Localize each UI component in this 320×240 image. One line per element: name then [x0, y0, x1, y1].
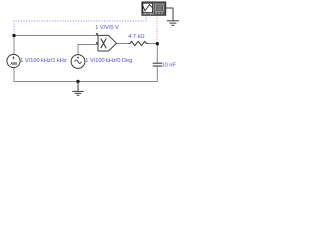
wire: node A to multiplier x input: [14, 35, 98, 37]
wire: multiplier output to resistor: [117, 43, 129, 45]
wire: V2 top to multiplier y input: [78, 45, 98, 55]
svg-text:1 V/V/0 V: 1 V/V/0 V: [95, 25, 119, 31]
label C1 value: 10 nF: [162, 63, 177, 69]
svg-text:10 nF: 10 nF: [162, 63, 177, 69]
svg-text:1 V/100 kHz/0 Deg: 1 V/100 kHz/0 Deg: [85, 58, 132, 64]
oscilloscope XSC1 body: [142, 2, 166, 15]
label V2 value: 1 V/100 kHz/0 Deg: [85, 58, 132, 64]
ground GND2 (top right): [167, 21, 179, 26]
wire: node A down to V1 top: [13, 36, 15, 55]
svg-text:1 V/100 kHz/1 kHz: 1 V/100 kHz/1 kHz: [20, 58, 67, 64]
oscilloscope XSC1 right display panel: [154, 3, 165, 15]
wire: resistor to node C: [148, 43, 157, 45]
label V1 value: 1 V/100 kHz/1 kHz: [20, 58, 67, 64]
wire: scope ground terminal: [166, 8, 173, 21]
AM source V1 text: [10, 61, 17, 66]
resistor R1: [129, 41, 149, 45]
AM source V1: [7, 54, 20, 67]
capacitor C1: [153, 63, 162, 66]
wire: scope channel A dashed (blue): [14, 15, 146, 35]
label R1 value: 4.7 kohm: [128, 34, 144, 40]
label A1 value: 1 V/V/0 V: [95, 25, 119, 31]
node C junction (output): [156, 42, 159, 45]
wire: node C down to capacitor C1: [156, 44, 158, 64]
oscilloscope XSC1 buttons: [145, 13, 163, 15]
wire: scope channel B dashed (red): [156, 15, 158, 43]
oscilloscope XSC1 screen with waveform: [143, 3, 153, 12]
multiplier A1 input pin markers: [96, 33, 98, 44]
ground GND1 (bottom): [72, 82, 84, 96]
multiplier A1: [98, 35, 117, 51]
wire: capacitor C1 to ground rail: [156, 66, 158, 82]
node A junction: [12, 34, 15, 37]
AC source V2: [71, 55, 85, 69]
svg-text:AM: AM: [10, 61, 17, 66]
wire: bottom ground rail: [14, 81, 158, 83]
wire: V1 bottom to ground rail: [13, 68, 15, 82]
svg-text:4.7 kΩ: 4.7 kΩ: [128, 34, 144, 40]
node B junction (ground rail): [76, 80, 79, 83]
